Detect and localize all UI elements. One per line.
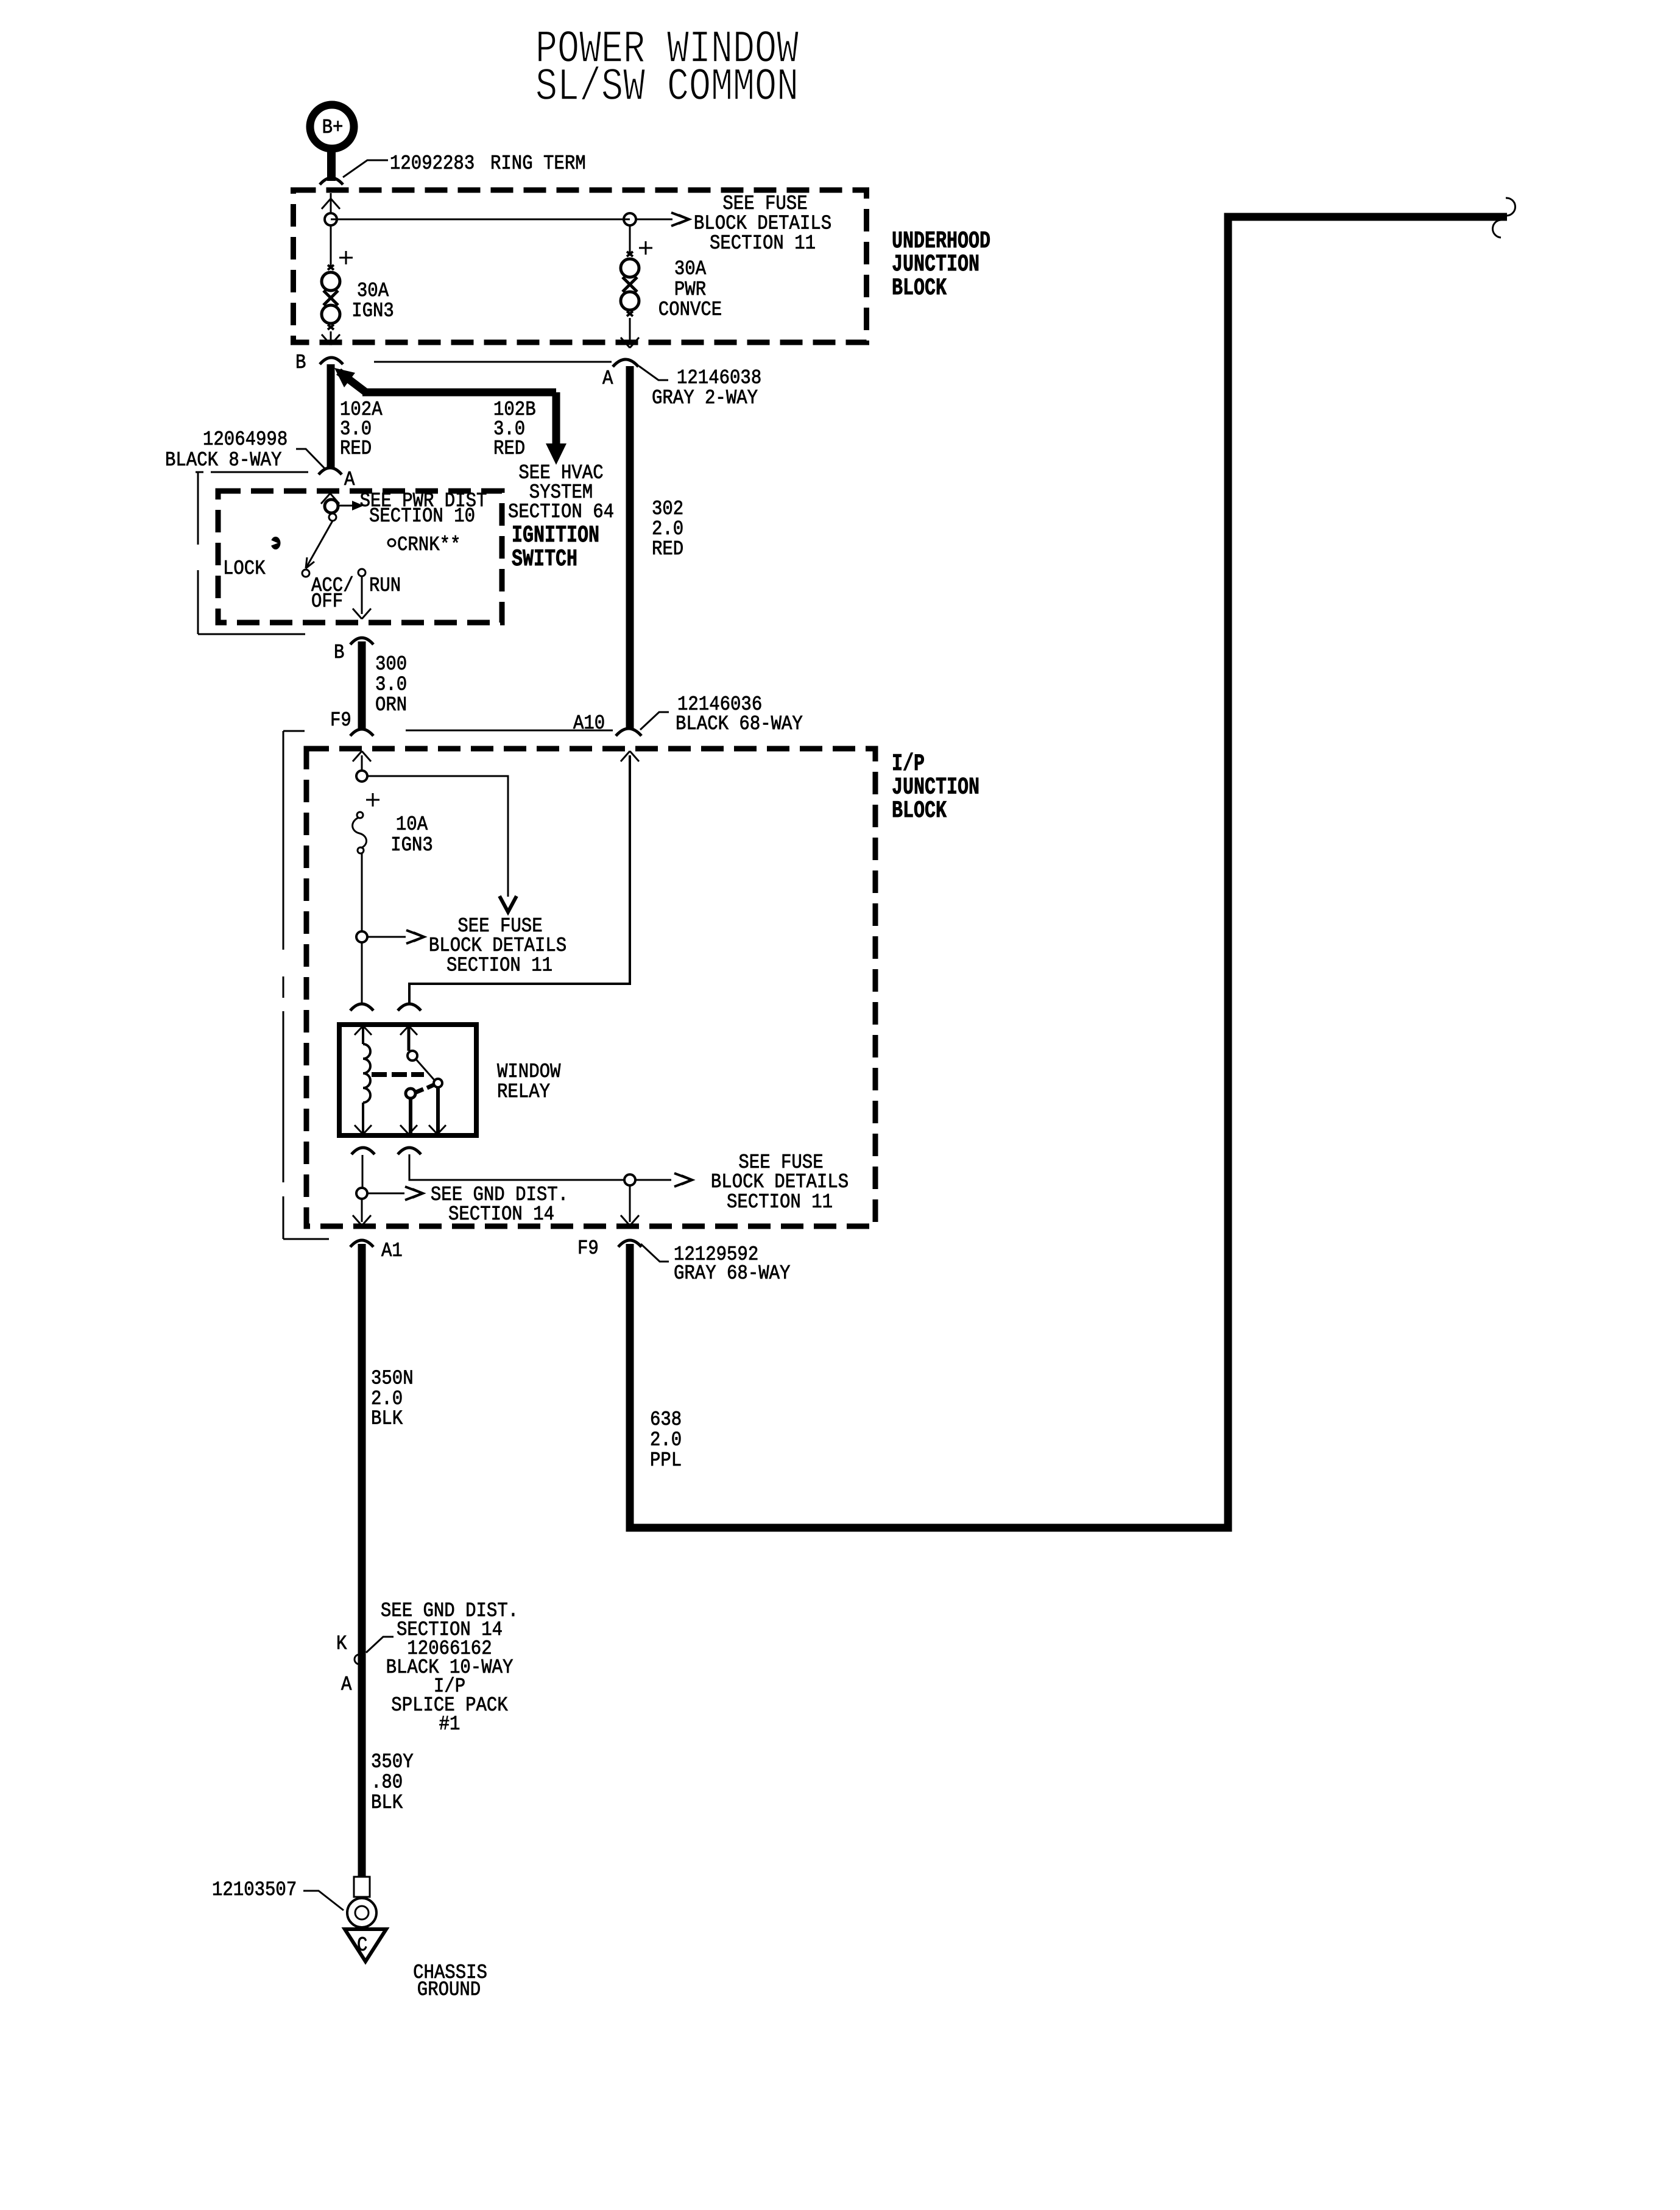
svg-text:BLOCK DETAILS: BLOCK DETAILS	[711, 1171, 849, 1193]
svg-text:12092283: 12092283	[390, 152, 475, 175]
connector dome A	[613, 359, 638, 367]
svg-text:RING TERM: RING TERM	[490, 152, 586, 175]
contact LOCK position	[302, 570, 309, 577]
svg-text:BLOCK: BLOCK	[892, 275, 947, 302]
svg-text:LOCK: LOCK	[223, 557, 266, 580]
entry arrow A10	[621, 751, 630, 761]
wire 102A thick	[327, 364, 335, 468]
wire B+ stub	[327, 149, 336, 181]
connector dome B ignition	[350, 638, 373, 644]
entry arrow F9	[353, 751, 362, 761]
leader splice	[366, 1637, 394, 1653]
svg-text:GRAY 68-WAY: GRAY 68-WAY	[674, 1262, 791, 1285]
svg-text:JUNCTION: JUNCTION	[892, 774, 979, 801]
wire bus to right fuse	[331, 219, 630, 221]
dome relay switch out	[398, 1148, 421, 1154]
svg-text:A: A	[341, 1673, 352, 1696]
svg-text:.80: .80	[371, 1771, 403, 1794]
svg-text:IGNITION: IGNITION	[512, 523, 599, 549]
svg-text:SECTION 64: SECTION 64	[508, 501, 614, 523]
svg-text:F9: F9	[577, 1237, 599, 1260]
dome relay coil feed	[350, 1004, 373, 1011]
ignition switch dashed box	[218, 491, 502, 623]
wire 300 thick	[358, 641, 366, 730]
svg-text:PWR: PWR	[674, 278, 706, 301]
svg-text:#1: #1	[439, 1713, 461, 1735]
svg-text:BLK: BLK	[371, 1792, 403, 1814]
connector interface line B-A	[374, 361, 612, 363]
wire to fuse 30A IGN3	[330, 225, 332, 267]
svg-text:2.0: 2.0	[652, 518, 683, 540]
relay NO contact	[434, 1079, 442, 1087]
svg-text:RED: RED	[652, 538, 683, 560]
underhood junction block dashed box	[294, 190, 867, 342]
svg-text:IGN3: IGN3	[351, 300, 394, 322]
svg-text:ORN: ORN	[375, 694, 407, 716]
connector dome A1	[350, 1240, 373, 1247]
relay contact dashes	[416, 1089, 423, 1092]
connector dome A10	[616, 729, 641, 736]
svg-text:RED: RED	[340, 437, 372, 460]
svg-text:SECTION 11: SECTION 11	[710, 232, 816, 255]
relay armature	[416, 1059, 434, 1080]
relay actuation dashed link	[372, 1072, 387, 1077]
node fuse note tap	[624, 1174, 635, 1185]
wire to fuse 30A PWR CONVCE	[629, 225, 631, 253]
svg-text:K: K	[336, 1633, 347, 1655]
node tap to fuse details	[356, 771, 367, 782]
node tap to fuse note 2	[356, 931, 367, 942]
svg-text:F9: F9	[330, 709, 351, 732]
svg-text:SECTION 10: SECTION 10	[369, 505, 475, 528]
svg-text:A1: A1	[381, 1240, 403, 1262]
exit arrow F9 bottom	[621, 1215, 630, 1226]
wire inside block left	[330, 193, 332, 214]
entry arrow ignition A	[321, 493, 330, 504]
ring terminal 12092283 dome	[320, 178, 343, 185]
contact CRNK	[388, 539, 395, 546]
connector interface line F9-A10	[406, 730, 613, 732]
connector dome F9	[350, 729, 373, 736]
svg-text:B: B	[295, 351, 306, 374]
leader 12146038	[639, 366, 668, 380]
svg-text:B+: B+	[322, 116, 344, 139]
wire to relay coil connector	[361, 942, 363, 1003]
ground symbol C triangle	[345, 1929, 386, 1961]
svg-text:A10: A10	[573, 712, 605, 735]
bracket I/P connector	[283, 730, 305, 732]
exit arrow A1	[353, 1215, 362, 1226]
svg-text:12103507: 12103507	[212, 1879, 297, 1901]
svg-text:350N: 350N	[371, 1368, 414, 1390]
wiper pivot	[329, 514, 336, 521]
bracket ignition connector	[196, 471, 203, 473]
svg-text:SECTION 11: SECTION 11	[446, 955, 552, 977]
svg-text:SWITCH: SWITCH	[512, 546, 577, 573]
ring terminal 12103507	[354, 1877, 370, 1897]
polarity + 10A fuse	[366, 799, 379, 801]
svg-text:302: 302	[652, 498, 683, 520]
leader 12129592	[641, 1244, 669, 1262]
svg-text:350Y: 350Y	[371, 1751, 414, 1773]
wire coil return	[362, 1155, 364, 1188]
svg-text:B: B	[334, 641, 344, 664]
svg-text:BLOCK: BLOCK	[892, 798, 947, 825]
arrowhead at tap junction	[334, 368, 355, 387]
dome relay switch feed	[398, 1004, 421, 1011]
relay fixed contact	[408, 1051, 417, 1061]
connector dome B	[320, 358, 343, 364]
arrow to fuse note lower	[635, 1179, 671, 1181]
wire F9 into block	[361, 755, 363, 771]
svg-text:30A: 30A	[357, 280, 389, 302]
connector dome F9 bottom	[618, 1240, 641, 1247]
relay pin arrows bottom	[355, 1125, 363, 1134]
exit arrow ignition B	[353, 609, 362, 619]
wire to exit A1	[361, 1199, 363, 1222]
window relay box	[339, 1025, 476, 1135]
svg-text:BLACK 68-WAY: BLACK 68-WAY	[676, 713, 803, 735]
arrow to gnd note	[367, 1193, 404, 1195]
wire fuse to exit B	[330, 331, 332, 342]
node junction right	[624, 213, 636, 225]
wire to exit F9	[629, 1185, 631, 1222]
wire switch out	[409, 1154, 625, 1180]
svg-text:WINDOW: WINDOW	[497, 1061, 561, 1083]
entry arrow at B+ into block	[322, 199, 331, 209]
leader 12092283	[343, 160, 388, 177]
svg-text:BLK: BLK	[371, 1408, 403, 1430]
splice node	[355, 1654, 364, 1664]
relay common pin	[409, 1098, 412, 1133]
fuse 30A PWR CONVCE	[627, 252, 633, 256]
svg-text:I/P: I/P	[892, 751, 925, 778]
node gnd tap	[356, 1188, 367, 1199]
arrow right to fuse note	[367, 936, 406, 938]
leader 12146036	[640, 712, 669, 730]
relay coil	[362, 1027, 364, 1044]
wire A10 to relay switch	[409, 755, 630, 1003]
connector underline	[211, 471, 308, 473]
terminal circle ignition feed	[325, 500, 338, 513]
svg-text:12146038: 12146038	[677, 367, 761, 389]
svg-text:638: 638	[650, 1408, 682, 1431]
contact RUN	[358, 569, 365, 576]
arrowhead to HVAC note	[546, 443, 566, 465]
leader 12064998	[296, 449, 325, 469]
node junction left	[325, 213, 337, 225]
lock detent mark	[271, 537, 281, 549]
svg-text:3.0: 3.0	[375, 674, 407, 696]
wire 10A fuse down	[361, 853, 363, 931]
relay NO pin	[436, 1087, 440, 1133]
polarity + right fuse	[639, 247, 652, 249]
wire 102B diagonal	[339, 372, 367, 393]
svg-text:2.0: 2.0	[650, 1429, 682, 1452]
svg-text:SL/SW COMMON: SL/SW COMMON	[535, 62, 799, 113]
svg-text:RELAY: RELAY	[497, 1081, 550, 1103]
svg-text:PPL: PPL	[650, 1449, 682, 1472]
svg-text:SECTION 14: SECTION 14	[448, 1203, 554, 1226]
svg-text:GROUND: GROUND	[417, 1979, 481, 2001]
switch wiper arm	[306, 521, 333, 568]
wire 102B horizontal	[362, 389, 556, 397]
relay common contact	[406, 1089, 415, 1098]
svg-text:CONVCE: CONVCE	[658, 298, 722, 321]
dome relay coil return	[351, 1148, 375, 1154]
connector dome A ignition	[319, 468, 342, 475]
svg-text:JUNCTION: JUNCTION	[892, 252, 979, 278]
wire RUN to pin B	[361, 576, 363, 614]
wire break continuation symbol	[1506, 198, 1516, 216]
arrow to PWR DIST note	[338, 505, 353, 507]
svg-text:12064998: 12064998	[203, 428, 288, 451]
svg-text:30A: 30A	[674, 258, 706, 280]
polarity + left fuse	[339, 257, 353, 259]
wire 102B drop	[552, 392, 560, 445]
arrowhead down to fuse note	[499, 896, 517, 912]
exit arrow pin A	[621, 337, 630, 348]
fuse 30A IGN3	[328, 265, 334, 270]
power symbol B+	[310, 105, 354, 149]
svg-text:GRAY 2-WAY: GRAY 2-WAY	[652, 387, 758, 409]
fuse 10A IGN3	[357, 812, 363, 818]
wire fuse to exit A	[629, 318, 631, 344]
svg-text:A: A	[344, 468, 355, 491]
wire 350N thick	[358, 1244, 366, 1879]
svg-text:C: C	[357, 1934, 367, 1957]
exit arrow pin B	[322, 334, 331, 345]
svg-text:OFF: OFF	[311, 590, 343, 613]
arrow to fuse block details	[636, 219, 672, 221]
svg-text:CRNK**: CRNK**	[397, 534, 461, 556]
leader 12103507	[303, 1891, 344, 1910]
I/P junction block dashed box	[306, 749, 875, 1226]
svg-text:RUN: RUN	[369, 574, 401, 597]
svg-text:IGN3: IGN3	[390, 834, 433, 856]
svg-text:A: A	[602, 367, 613, 390]
svg-text:RED: RED	[493, 437, 525, 460]
relay pin arrows top	[355, 1026, 363, 1035]
svg-text:10A: 10A	[396, 813, 428, 836]
svg-text:300: 300	[375, 653, 407, 676]
relay switch common stub	[408, 1027, 411, 1051]
wire 302 thick	[626, 366, 634, 729]
svg-text:BLACK 8-WAY: BLACK 8-WAY	[165, 449, 282, 471]
wire tap to down arrow	[367, 776, 508, 897]
svg-text:SECTION 11: SECTION 11	[727, 1191, 833, 1213]
wire 638 PPL loop	[630, 217, 1507, 1528]
